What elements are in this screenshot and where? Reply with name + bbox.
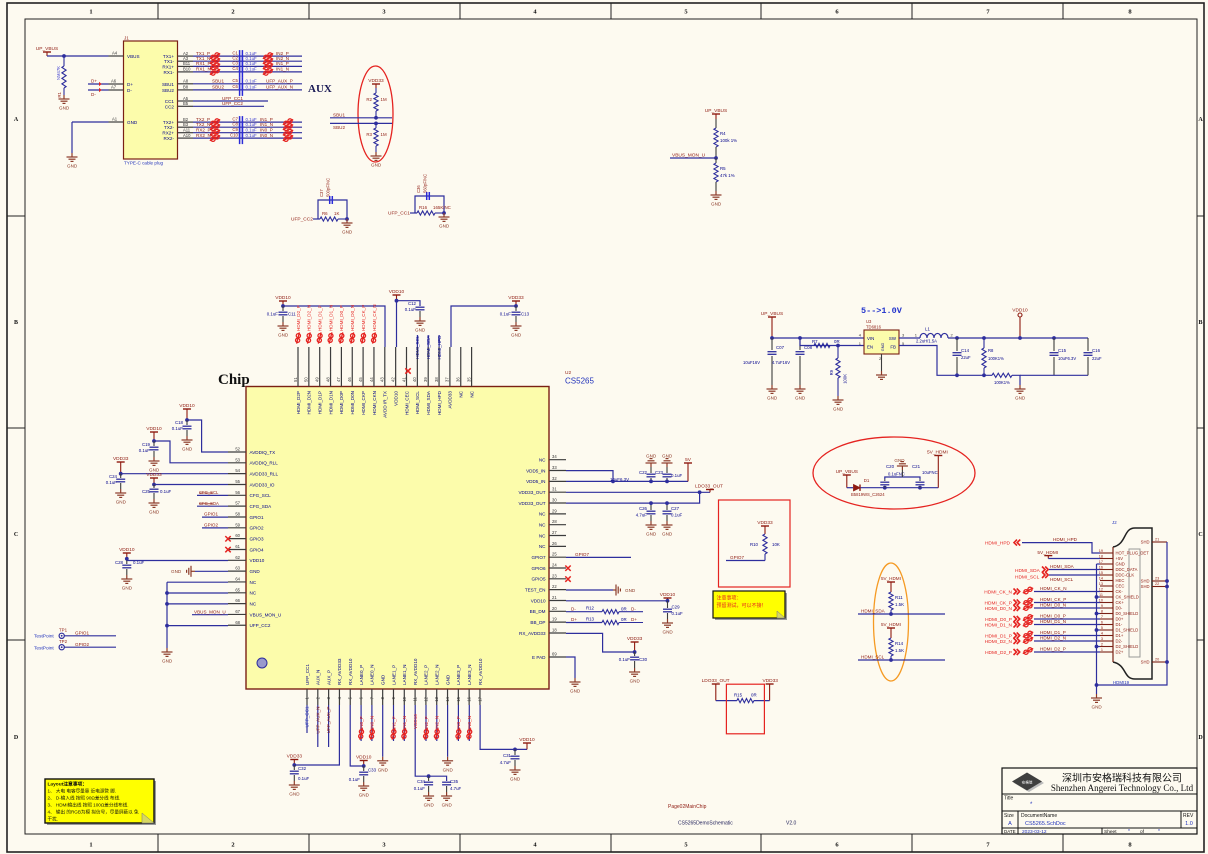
wire vdd10 to pin42 bbox=[396, 301, 398, 347]
svg-text:HEC: HEC bbox=[1116, 578, 1125, 583]
svg-text:IN0_N: IN0_N bbox=[370, 716, 375, 729]
wire GPIO7 pull bbox=[726, 560, 765, 562]
wire HDMI_D2_P bbox=[1034, 651, 1100, 653]
svg-text:16: 16 bbox=[467, 696, 472, 701]
wire RX_AVDD10 pin5 bbox=[350, 705, 364, 766]
svg-text:57: 57 bbox=[235, 501, 240, 506]
wire HDMI_SDA pull bbox=[858, 613, 945, 615]
svg-text:23: 23 bbox=[552, 573, 557, 578]
svg-text:GND: GND bbox=[278, 333, 289, 338]
svg-text:12: 12 bbox=[423, 696, 428, 701]
svg-text:10uFNC: 10uFNC bbox=[922, 470, 938, 475]
svg-text:35: 35 bbox=[466, 377, 471, 382]
wire HDMI_D0_N bbox=[1034, 607, 1100, 609]
svg-text:C27: C27 bbox=[671, 506, 680, 511]
ferrite bead TX1_P left bbox=[210, 53, 220, 60]
node c12 bbox=[395, 299, 399, 303]
ferrite bead TX2_N right bbox=[283, 124, 293, 131]
svg-text:D0_SHIELD: D0_SHIELD bbox=[1116, 611, 1139, 616]
wire SW to L1 bbox=[899, 337, 920, 339]
svg-text:41: 41 bbox=[401, 377, 406, 382]
svg-text:GND: GND bbox=[646, 454, 657, 459]
node c32 bbox=[292, 763, 296, 767]
chip EPAD pin bbox=[532, 652, 566, 660]
svg-text:HOT_PLUG_DET: HOT_PLUG_DET bbox=[1116, 551, 1150, 556]
ground C33 bbox=[358, 782, 369, 790]
svg-text:3、 HDMI输出线 按照 100Ω差分线布线.: 3、 HDMI输出线 按照 100Ω差分线布线. bbox=[48, 802, 129, 809]
svg-text:UFP_CC2: UFP_CC2 bbox=[250, 623, 271, 628]
svg-text:C24: C24 bbox=[109, 474, 118, 479]
wire 5v_hdmi net bbox=[861, 487, 939, 489]
svg-text:AVDDIQ_TX: AVDDIQ_TX bbox=[250, 450, 276, 455]
node c25 bbox=[152, 483, 156, 487]
node c33 bbox=[362, 764, 366, 768]
svg-text:GND: GND bbox=[443, 767, 454, 772]
svg-text:LANE3_P: LANE3_P bbox=[456, 665, 461, 685]
svg-text:LANE2_P: LANE2_P bbox=[424, 665, 429, 685]
svg-text:安格瑞: 安格瑞 bbox=[1022, 780, 1033, 785]
svg-text:SW: SW bbox=[889, 336, 897, 341]
ground C35 bbox=[441, 792, 452, 800]
wire RX_AVDD10 pin11 bbox=[415, 705, 428, 776]
svg-text:1M: 1M bbox=[381, 132, 387, 137]
wire GPIO1 tp1 bbox=[64, 635, 116, 637]
svg-text:DDC-CLK: DDC-CLK bbox=[1116, 573, 1135, 578]
svg-text:58: 58 bbox=[235, 511, 240, 516]
capacitor C2 bbox=[239, 55, 241, 67]
svg-text:0.1uF: 0.1uF bbox=[349, 777, 361, 782]
node ldo33 bbox=[698, 490, 702, 494]
svg-text:NC: NC bbox=[250, 591, 257, 596]
wire HDMI_SDA pin39 bbox=[427, 335, 429, 347]
ground J2 bbox=[1091, 694, 1102, 702]
node c26 bbox=[649, 501, 653, 505]
svg-text:GND: GND bbox=[289, 792, 300, 797]
ground C30 bbox=[629, 668, 640, 676]
capacitor C37 bbox=[329, 196, 331, 204]
svg-text:RX1_N: RX1_N bbox=[196, 67, 211, 72]
svg-text:HDMI_D0P: HDMI_D0P bbox=[339, 391, 344, 414]
power flag LDO33_OUT bbox=[706, 489, 714, 491]
svg-text:RX_AVDD10: RX_AVDD10 bbox=[478, 658, 483, 685]
svg-text:20: 20 bbox=[1155, 658, 1159, 662]
chip left pin names and numbers bbox=[228, 447, 281, 629]
svg-text:10uF6.3V: 10uF6.3V bbox=[1058, 356, 1076, 361]
power flag VDD10 c28 bbox=[123, 552, 131, 554]
svg-text:VDD33: VDD33 bbox=[287, 754, 303, 760]
svg-text:165K/NC: 165K/NC bbox=[433, 205, 451, 210]
svg-text:HDMI_D1P: HDMI_D1P bbox=[318, 391, 323, 414]
svg-text:C25: C25 bbox=[142, 489, 151, 494]
svg-text:4.7uF16V: 4.7uF16V bbox=[772, 360, 790, 365]
svg-text:560pF/NC: 560pF/NC bbox=[423, 174, 428, 193]
svg-text:1.5K: 1.5K bbox=[895, 648, 904, 653]
power flag VDD10 c29 bbox=[664, 597, 672, 599]
svg-text:B5819WS_C2624: B5819WS_C2624 bbox=[851, 492, 885, 497]
wire GPIO2 tp2 bbox=[64, 646, 116, 648]
ferrite bead IN1_P bbox=[388, 728, 400, 740]
node r14 bbox=[889, 658, 893, 662]
resistor R5 bbox=[715, 158, 717, 163]
svg-text:L1: L1 bbox=[925, 327, 930, 332]
svg-text:0.1uF: 0.1uF bbox=[619, 657, 631, 662]
svg-text:0.1uF: 0.1uF bbox=[172, 426, 184, 431]
svg-text:5V_HDMI: 5V_HDMI bbox=[1037, 550, 1058, 556]
node c27 bbox=[665, 501, 669, 505]
capacitor C31 bbox=[514, 749, 516, 755]
svg-text:24: 24 bbox=[552, 563, 557, 568]
wire c35 bbox=[429, 776, 447, 781]
svg-text:0.1uF: 0.1uF bbox=[246, 128, 258, 133]
svg-text:46: 46 bbox=[347, 377, 352, 382]
power flag VDD33 r10 bbox=[761, 525, 769, 527]
svg-text:10: 10 bbox=[402, 696, 407, 701]
svg-text:62: 62 bbox=[235, 555, 240, 560]
svg-text:21: 21 bbox=[1155, 538, 1159, 542]
svg-text:A7: A7 bbox=[111, 85, 117, 90]
svg-text:UFP_CC2: UFP_CC2 bbox=[222, 101, 243, 106]
svg-text:C18: C18 bbox=[175, 420, 184, 425]
svg-text:RX_AVDD10: RX_AVDD10 bbox=[413, 658, 418, 685]
wire HDMI_SCL pull bbox=[858, 659, 945, 661]
wire SBU1 tap bbox=[330, 117, 392, 119]
svg-text:CK+: CK+ bbox=[1116, 600, 1125, 605]
wire vdd10 to pin43 bbox=[283, 306, 385, 347]
svg-text:HDMI_D0_N: HDMI_D0_N bbox=[1040, 603, 1066, 608]
svg-text:HDMI_D2_P: HDMI_D2_P bbox=[1040, 647, 1066, 652]
note sticky yellow layout bbox=[45, 779, 156, 825]
svg-text:GND: GND bbox=[510, 777, 521, 782]
svg-text:65: 65 bbox=[235, 587, 240, 592]
svg-text:HDMI_D2P: HDMI_D2P bbox=[296, 391, 301, 414]
ground C22 up bbox=[646, 459, 657, 467]
svg-text:R13: R13 bbox=[586, 616, 595, 621]
svg-text:C28: C28 bbox=[115, 560, 124, 565]
capacitor C24 bbox=[120, 474, 122, 478]
svg-text:AUX_N: AUX_N bbox=[316, 670, 321, 685]
svg-text:1.5K: 1.5K bbox=[895, 602, 904, 607]
svg-text:100K1%: 100K1% bbox=[988, 356, 1004, 361]
ferrite bead IN2_P bbox=[420, 728, 432, 740]
ferrite bead HDMI_D2_N bbox=[1023, 637, 1033, 644]
svg-text:HDMI_CEC: HDMI_CEC bbox=[404, 390, 409, 415]
column ticks bottom bbox=[158, 834, 1063, 852]
svg-text:D0+: D0+ bbox=[1116, 617, 1124, 622]
wire RX1_N bbox=[178, 71, 194, 73]
resistor R4 bbox=[715, 119, 717, 128]
svg-text:GND: GND bbox=[424, 803, 435, 808]
svg-text:D-: D- bbox=[91, 92, 96, 97]
wire shield trunk bbox=[1096, 564, 1098, 694]
svg-text:GPIO7: GPIO7 bbox=[575, 552, 589, 557]
svg-text:D+: D+ bbox=[571, 617, 577, 622]
svg-text:预留测试，可以不接！: 预留测试，可以不接！ bbox=[717, 602, 767, 609]
svg-text:VDD10: VDD10 bbox=[119, 547, 135, 553]
svg-text:B5: B5 bbox=[183, 101, 189, 106]
svg-text:6: 6 bbox=[1101, 621, 1103, 625]
resistor R11 bbox=[889, 592, 893, 610]
svg-text:A: A bbox=[1198, 117, 1203, 123]
svg-text:D+: D+ bbox=[631, 617, 637, 622]
svg-text:RX2_N: RX2_N bbox=[196, 133, 211, 138]
wire RX_AVDD33 pin18 bbox=[566, 633, 635, 652]
svg-text:SBU1: SBU1 bbox=[162, 82, 174, 87]
svg-text:44: 44 bbox=[369, 377, 374, 382]
svg-text:0.1uF: 0.1uF bbox=[246, 122, 258, 127]
power flag VDD33 c30 bbox=[631, 641, 639, 643]
wire U3 gnd bbox=[881, 354, 883, 371]
svg-text:LANE0_N: LANE0_N bbox=[370, 665, 375, 685]
svg-text:GND: GND bbox=[127, 120, 138, 125]
svg-text:R3: R3 bbox=[366, 132, 372, 137]
node R16 out bbox=[442, 211, 446, 215]
ferrite bead HDMI_CK_N bbox=[1023, 587, 1033, 594]
wire VDD10 pin21 bbox=[566, 600, 668, 602]
wire GPIO1 bbox=[202, 516, 228, 518]
svg-text:C9: C9 bbox=[232, 127, 238, 132]
wire RX2_N bbox=[178, 137, 194, 139]
svg-text:4.7uF: 4.7uF bbox=[450, 786, 462, 791]
svg-text:TX2-: TX2- bbox=[164, 125, 174, 130]
highlight box R15 bbox=[726, 684, 764, 734]
svg-text:NC: NC bbox=[539, 522, 546, 527]
svg-text:1: 1 bbox=[1101, 648, 1103, 652]
ground C27 bbox=[662, 521, 673, 529]
capacitor C12 bbox=[416, 306, 425, 308]
row ticks left bbox=[7, 216, 25, 640]
ground C34 bbox=[423, 792, 434, 800]
svg-text:CEC: CEC bbox=[1116, 584, 1125, 589]
node in c08 bbox=[798, 336, 802, 340]
svg-text:C34: C34 bbox=[417, 779, 426, 784]
wire shield pin y597 bbox=[1097, 596, 1101, 598]
wire VDD5_IN rail pin32 bbox=[566, 480, 688, 482]
ferrite bead RX2_N left bbox=[210, 135, 220, 142]
wire TX1_N bbox=[178, 60, 194, 62]
node 5v rail a bbox=[611, 480, 615, 484]
svg-text:52: 52 bbox=[235, 447, 240, 452]
svg-text:HDMI_SDA: HDMI_SDA bbox=[426, 390, 431, 415]
svg-text:IN1_N: IN1_N bbox=[402, 716, 407, 729]
svg-text:RX2_P: RX2_P bbox=[196, 128, 211, 133]
ferrite bead IN3_P bbox=[453, 728, 465, 740]
svg-text:47k 1%: 47k 1% bbox=[720, 173, 735, 178]
wire EN bbox=[800, 338, 864, 346]
svg-text:VDD10: VDD10 bbox=[275, 295, 291, 301]
wire GND A1 bbox=[72, 121, 109, 123]
svg-text:EN: EN bbox=[867, 345, 873, 350]
connector J1 TYPE-C cable plug bbox=[124, 41, 178, 159]
svg-text:0.1uF: 0.1uF bbox=[133, 560, 145, 565]
wire UFP_AUX_P pin3 bbox=[328, 705, 330, 747]
svg-text:A11: A11 bbox=[183, 128, 191, 133]
svg-text:67: 67 bbox=[235, 609, 240, 614]
svg-text:R10: R10 bbox=[750, 542, 759, 547]
ferrite bead IN1_N bbox=[398, 728, 410, 740]
svg-text:Layout注意事项：: Layout注意事项： bbox=[48, 781, 88, 788]
ground U3 bbox=[876, 371, 887, 379]
wire BB_DP pin19 bbox=[566, 622, 602, 624]
ferrite bead IN0_P bbox=[355, 728, 367, 740]
svg-text:VIN: VIN bbox=[867, 336, 874, 341]
node c30 bbox=[633, 650, 637, 654]
svg-text:HDMI_CK_P: HDMI_CK_P bbox=[361, 305, 366, 331]
svg-text:NC: NC bbox=[250, 601, 257, 606]
wire NC bus pins 64-66-68 bbox=[167, 581, 228, 583]
svg-text:36: 36 bbox=[456, 377, 461, 382]
wire VDD5_IN pin33 bbox=[566, 471, 613, 482]
node r11 bbox=[889, 612, 893, 616]
svg-text:C07: C07 bbox=[776, 345, 785, 350]
svg-text:42: 42 bbox=[390, 377, 395, 382]
svg-text:HDMI_D2_N: HDMI_D2_N bbox=[985, 639, 1013, 645]
svg-text:HDMI_SCL: HDMI_SCL bbox=[415, 335, 420, 359]
svg-text:0.1uF: 0.1uF bbox=[106, 480, 118, 485]
svg-text:REV: REV bbox=[1183, 813, 1194, 819]
chip U2 CS5265 body bbox=[246, 387, 549, 690]
resistor R10b bbox=[992, 373, 1012, 377]
svg-text:GND: GND bbox=[250, 569, 261, 574]
svg-text:NC: NC bbox=[459, 390, 464, 397]
svg-text:GND: GND bbox=[881, 343, 885, 352]
svg-text:68: 68 bbox=[235, 620, 240, 625]
wire shield pin y630 bbox=[1097, 629, 1101, 631]
svg-text:HDMI_D1_P: HDMI_D1_P bbox=[1040, 630, 1066, 635]
svg-text:SHD: SHD bbox=[1141, 579, 1150, 584]
svg-text:B: B bbox=[1198, 320, 1202, 326]
ferrite bead HDMI_D1_N bbox=[1023, 620, 1033, 627]
svg-text:CFG_SDA: CFG_SDA bbox=[250, 504, 273, 509]
ground C29 bbox=[662, 619, 673, 627]
wire CFG_SDA bbox=[197, 505, 228, 507]
highlight ellipse SBU divider bbox=[358, 66, 393, 162]
capacitor C29 bbox=[667, 601, 669, 608]
svg-text:D-: D- bbox=[127, 88, 132, 93]
svg-text:NM47K: NM47K bbox=[56, 66, 61, 80]
svg-text:C3: C3 bbox=[232, 61, 238, 66]
wire BB_DM pin20 bbox=[566, 611, 602, 613]
power flag 5V bbox=[684, 462, 692, 464]
svg-text:Page02MainChip: Page02MainChip bbox=[668, 804, 707, 810]
svg-text:A1: A1 bbox=[112, 117, 118, 122]
power flag 5V_HDMI j2 bbox=[1044, 555, 1052, 557]
capacitor C11 bbox=[282, 306, 284, 311]
wire HDMI_SCL j2 bbox=[1049, 574, 1100, 576]
power flag VDD10 c19 bbox=[150, 431, 158, 433]
svg-text:C12: C12 bbox=[408, 301, 417, 306]
svg-text:HDMI_CK_N: HDMI_CK_N bbox=[1040, 586, 1067, 591]
svg-text:GND: GND bbox=[630, 679, 641, 684]
svg-text:VDD10: VDD10 bbox=[179, 403, 195, 409]
svg-text:SBU1: SBU1 bbox=[212, 79, 224, 84]
node c18 bbox=[185, 418, 189, 422]
svg-text:IN3_N: IN3_N bbox=[467, 716, 472, 729]
node fb bbox=[955, 373, 959, 377]
svg-text:AVDDIQ_RLL: AVDDIQ_RLL bbox=[250, 461, 279, 466]
no-connect X pin23 bbox=[565, 576, 570, 581]
svg-text:2: 2 bbox=[1101, 643, 1103, 647]
svg-text:GND: GND bbox=[182, 447, 193, 452]
svg-text:2023-03-12: 2023-03-12 bbox=[1022, 829, 1047, 835]
svg-text:21: 21 bbox=[552, 595, 557, 600]
svg-text:15: 15 bbox=[456, 696, 461, 701]
svg-text:GND: GND bbox=[342, 230, 353, 235]
svg-text:干扰.: 干扰. bbox=[48, 816, 58, 823]
svg-text:0.1uF: 0.1uF bbox=[246, 133, 258, 138]
svg-text:IN1_N: IN1_N bbox=[260, 122, 273, 127]
svg-text:NC: NC bbox=[539, 458, 546, 463]
svg-text:GND: GND bbox=[662, 454, 673, 459]
svg-text:C: C bbox=[14, 532, 18, 538]
svg-text:R16: R16 bbox=[419, 205, 428, 210]
svg-text:RX_AVDD33: RX_AVDD33 bbox=[337, 658, 342, 685]
svg-text:GND: GND bbox=[378, 767, 389, 772]
ferrite bead top pin 51 bbox=[292, 332, 304, 344]
svg-text:0.1uF: 0.1uF bbox=[160, 489, 172, 494]
resistor R8 bbox=[983, 338, 985, 348]
capacitor C6 bbox=[239, 84, 241, 96]
pin1 mark bbox=[257, 658, 267, 668]
svg-text:D-: D- bbox=[631, 606, 636, 611]
svg-text:HDMI_D2_P: HDMI_D2_P bbox=[985, 650, 1012, 656]
svg-text:NC: NC bbox=[469, 390, 474, 397]
svg-text:C16: C16 bbox=[1092, 348, 1101, 353]
svg-text:0.1uF: 0.1uF bbox=[246, 61, 258, 66]
node out vdd10 bbox=[1018, 336, 1022, 340]
node out c15 bbox=[1052, 336, 1056, 340]
ground EPAD bbox=[570, 678, 581, 686]
node SBU1 bbox=[374, 116, 378, 120]
resistor R1 bbox=[63, 56, 65, 66]
svg-text:0R: 0R bbox=[751, 693, 757, 698]
svg-text:BB_DM: BB_DM bbox=[530, 609, 546, 614]
capacitor C32 bbox=[293, 765, 295, 770]
svg-text:TP2: TP2 bbox=[59, 639, 68, 644]
row letters left bbox=[14, 117, 19, 741]
wire UFP_CC1 pin1 bbox=[306, 705, 308, 733]
svg-text:5V_HDMI: 5V_HDMI bbox=[927, 450, 948, 456]
svg-text:17: 17 bbox=[477, 696, 482, 701]
node d1 c20 bbox=[883, 486, 887, 490]
svg-text:HDMI19: HDMI19 bbox=[1113, 680, 1130, 685]
svg-text:R2: R2 bbox=[366, 97, 372, 102]
svg-text:0.1uF: 0.1uF bbox=[246, 85, 258, 90]
svg-text:31: 31 bbox=[552, 487, 557, 492]
ground dcdc out bbox=[1015, 385, 1026, 393]
svg-text:GND: GND bbox=[1092, 705, 1103, 710]
capacitor C15 bbox=[1053, 338, 1055, 351]
svg-text:14: 14 bbox=[1099, 577, 1103, 581]
power flag 5V_HDMI bbox=[934, 455, 942, 457]
svg-text:LANE1_N: LANE1_N bbox=[402, 665, 407, 685]
wire to pin53 bbox=[154, 441, 228, 463]
svg-text:28: 28 bbox=[552, 519, 557, 524]
svg-text:BB_DP: BB_DP bbox=[530, 620, 545, 625]
capacitor C3 bbox=[239, 60, 241, 72]
svg-text:64: 64 bbox=[235, 576, 240, 581]
svg-text:HDMI_CK_P: HDMI_CK_P bbox=[1040, 597, 1066, 602]
ground C18 bbox=[182, 436, 193, 444]
resistor R9 bbox=[837, 346, 839, 359]
svg-text:B3: B3 bbox=[183, 122, 189, 127]
svg-text:B11: B11 bbox=[183, 61, 191, 66]
ferrite bead top pin 44 bbox=[368, 332, 380, 344]
svg-text:TP1: TP1 bbox=[59, 628, 68, 633]
svg-text:UP_VBUS: UP_VBUS bbox=[761, 311, 783, 317]
ferrite bead RX2_N right bbox=[283, 135, 293, 142]
svg-text:60: 60 bbox=[235, 533, 240, 538]
svg-text:GND: GND bbox=[149, 468, 160, 473]
